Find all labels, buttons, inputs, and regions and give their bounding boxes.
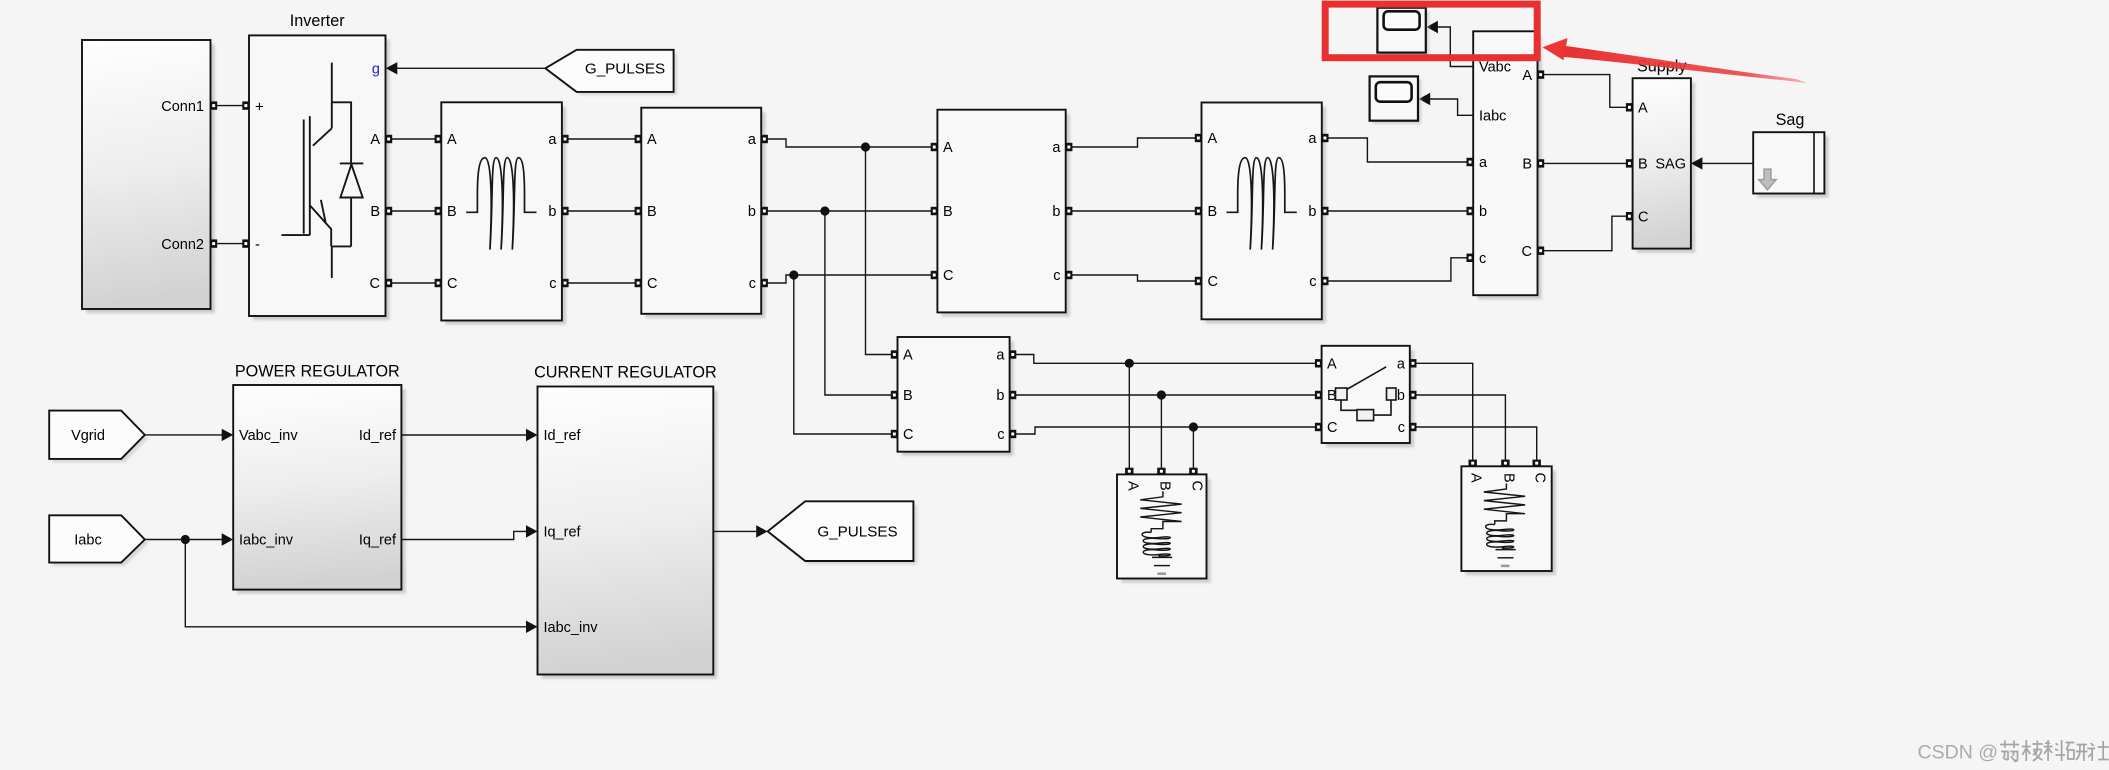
wire filter1 a to filter2 A (761, 139, 937, 152)
block Inverter (249, 35, 390, 320)
svg-text:Iabc: Iabc (74, 533, 101, 549)
wire tap a to breaker A (1010, 355, 1322, 368)
svg-text:c: c (1479, 251, 1486, 267)
svg-text:b: b (548, 204, 556, 220)
port markers load 2 top (1469, 460, 1541, 467)
port markers filter 1 (635, 135, 768, 287)
svg-text:B: B (370, 204, 380, 220)
wire tap b to breaker B (1010, 390, 1322, 399)
svg-text:Iq_ref: Iq_ref (359, 533, 397, 549)
svg-text:Conn1: Conn1 (161, 99, 204, 115)
subsystem POWER REGULATOR (233, 385, 405, 594)
svg-text:A: A (1468, 473, 1484, 483)
svg-text:B: B (1208, 204, 1218, 220)
svg-text:a: a (1397, 357, 1406, 373)
wire tap A down to measurement tap (866, 147, 898, 355)
svg-text:Id_ref: Id_ref (359, 428, 397, 444)
three-phase V-I measurement (1473, 31, 1542, 299)
svg-text:b: b (748, 204, 756, 220)
svg-text:b: b (996, 388, 1004, 404)
svg-text:c: c (1053, 268, 1060, 284)
svg-text:Iabc_inv: Iabc_inv (239, 533, 294, 549)
svg-text:A: A (1124, 481, 1140, 491)
port markers inverter + - inputs and A B C outputs (242, 101, 392, 287)
svg-text:C: C (943, 268, 953, 284)
block Sag (1753, 132, 1828, 198)
wire tap c to breaker C (1010, 422, 1322, 434)
svg-text:c: c (549, 276, 556, 292)
wire junction B down to load1 B (1160, 395, 1162, 474)
svg-text:A: A (903, 348, 913, 364)
svg-text:C: C (1188, 481, 1204, 491)
wire L1 b to filter1 B (562, 210, 641, 212)
wire L1 c to filter1 C (562, 282, 641, 284)
svg-text:g: g (372, 61, 380, 77)
wire regulator output to G_PULSES tag (713, 525, 767, 537)
svg-text:Iabc: Iabc (1479, 109, 1506, 125)
svg-text:B: B (647, 204, 657, 220)
scope 2 (1370, 76, 1422, 124)
wire measurement A to Supply A (1538, 75, 1633, 108)
subsystem CURRENT REGULATOR (538, 387, 718, 679)
svg-text:A: A (1208, 131, 1218, 147)
svg-text:Iq_ref: Iq_ref (544, 525, 582, 541)
svg-text:B: B (1327, 388, 1337, 404)
svg-text:a: a (548, 132, 557, 148)
wire measurement C to Supply C (1538, 216, 1633, 251)
svg-text:CSDN @: CSDN @ (1918, 742, 1998, 764)
subsystem PV source (Conn1/Conn2) (82, 40, 215, 313)
svg-text:A: A (647, 132, 657, 148)
subsystem filter 1 (641, 108, 765, 318)
input tag Vgrid (49, 411, 148, 463)
wire filter2 b to L2 B (1066, 210, 1202, 212)
wire Id_ref to Id_ref (401, 429, 537, 441)
port markers inductor L1 (435, 135, 569, 287)
wire junction C down to load1 C (1192, 427, 1194, 474)
svg-text:B: B (1638, 157, 1648, 173)
wire filter2 a to L2 A (1066, 138, 1202, 147)
red highlight rectangle around scope 1 (1325, 4, 1537, 58)
svg-text:A: A (447, 132, 457, 148)
wire filter1 b to filter2 B (761, 206, 937, 215)
svg-text:A: A (370, 132, 380, 148)
watermark hanzi glyphs (2000, 740, 2109, 761)
three-phase inductor L2 (1202, 103, 1327, 324)
input tag G_PULSES (to inverter gate) (545, 50, 677, 96)
svg-text:B: B (447, 204, 457, 220)
svg-text:C: C (647, 276, 657, 292)
svg-text:c: c (1309, 274, 1316, 290)
wire tap B down to measurement tap (825, 211, 898, 395)
svg-text:A: A (1638, 101, 1648, 117)
svg-text:POWER REGULATOR: POWER REGULATOR (235, 363, 400, 381)
wire inverter A to L1 A (386, 138, 442, 140)
svg-text:Id_ref: Id_ref (544, 428, 582, 444)
svg-text:C: C (1208, 274, 1218, 290)
svg-text:Vabc_inv: Vabc_inv (239, 428, 298, 444)
wire Conn2 to inverter - (211, 243, 250, 245)
wire G_PULSES to inverter g (386, 62, 546, 74)
inductor coil icon L2 (1227, 158, 1297, 250)
svg-text:A: A (1327, 357, 1337, 373)
svg-text:c: c (1398, 420, 1405, 436)
svg-text:Vabc: Vabc (1479, 60, 1511, 76)
svg-text:b: b (1308, 204, 1316, 220)
inductor coil icon L1 (466, 158, 536, 250)
three-phase breaker (1322, 346, 1414, 447)
wire junction A down to load1 A (1128, 363, 1130, 474)
wire L2 c to measurement c (1322, 258, 1473, 281)
svg-text:c: c (749, 276, 756, 292)
wire filter1 c to filter2 C (761, 270, 937, 283)
svg-text:C: C (1532, 473, 1548, 483)
wire measurement B to Supply B (1538, 162, 1633, 164)
wire Iabc junction to CURRENT REGULATOR Iabc_inv (185, 540, 537, 634)
input tag Iabc (49, 515, 148, 566)
wire inverter B to L1 B (386, 210, 442, 212)
red annotation arrow (1543, 38, 1568, 60)
svg-text:Conn2: Conn2 (161, 237, 204, 253)
load 1 series RL icon (1140, 491, 1181, 575)
load 2 series RL icon (1484, 483, 1525, 567)
wire Iq_ref to Iq_ref (401, 525, 537, 539)
svg-text:G_PULSES: G_PULSES (817, 524, 897, 541)
wire breaker b to load2 B (1410, 395, 1506, 466)
port markers filter 2 (931, 143, 1073, 279)
wire filter2 c to L2 C (1066, 275, 1202, 281)
wire Vabc to scope 1 (1426, 21, 1473, 67)
svg-text:A: A (943, 140, 953, 156)
svg-text:C: C (370, 276, 380, 292)
svg-text:B: B (903, 388, 913, 404)
svg-text:a: a (1308, 131, 1317, 147)
breaker switch icon (1336, 367, 1397, 421)
wire Vgrid to Vabc_inv (145, 429, 233, 441)
subsystem filter 2 (937, 110, 1070, 317)
svg-text:B: B (1500, 473, 1516, 483)
svg-text:a: a (1479, 155, 1488, 171)
svg-text:Inverter: Inverter (290, 12, 345, 30)
port markers measurement block (1467, 70, 1545, 262)
svg-text:Vgrid: Vgrid (71, 428, 105, 444)
Sag block icon (from-file) (1759, 132, 1814, 193)
port markers inductor L2 (1195, 134, 1329, 285)
inverter IGBT and diode icon (282, 63, 364, 278)
three-phase inductor L1 (441, 102, 566, 324)
wire breaker c to load2 C (1410, 427, 1537, 466)
port markers measurement tap (891, 350, 1017, 438)
port markers Conn1/Conn2 outputs (210, 101, 217, 247)
svg-text:a: a (996, 348, 1005, 364)
subsystem Supply (1633, 78, 1696, 253)
svg-text:C: C (447, 276, 457, 292)
svg-text:+: + (255, 99, 264, 116)
svg-text:b: b (1397, 388, 1405, 404)
wire L2 b to measurement b (1322, 210, 1473, 212)
svg-text:a: a (1052, 140, 1061, 156)
svg-text:C: C (1522, 244, 1532, 260)
svg-text:c: c (997, 427, 1004, 443)
port markers load 1 top (1125, 468, 1198, 475)
svg-text:Sag: Sag (1776, 111, 1805, 129)
wire L2 a to measurement a (1322, 138, 1473, 162)
three-phase load 1 (1117, 474, 1211, 582)
svg-text:B: B (1156, 481, 1172, 491)
port markers Supply inputs (1626, 103, 1633, 220)
svg-text:b: b (1052, 204, 1060, 220)
wire inverter C to L1 C (386, 282, 442, 284)
wire Conn1 to inverter + (211, 105, 250, 107)
subsystem measurement tap (898, 337, 1014, 456)
output tag G_PULSES (from current regulator) (768, 501, 917, 564)
svg-text:B: B (1522, 157, 1532, 173)
svg-text:-: - (255, 236, 260, 253)
wire tap C down to measurement tap (794, 275, 898, 434)
svg-text:G_PULSES: G_PULSES (585, 61, 665, 78)
svg-text:C: C (903, 427, 913, 443)
wire Iabc to scope 2 (1419, 93, 1474, 116)
svg-text:B: B (943, 204, 953, 220)
wire breaker a to load2 A (1410, 363, 1473, 466)
svg-text:A: A (1522, 68, 1532, 84)
svg-text:Iabc_inv: Iabc_inv (544, 620, 599, 636)
svg-text:CURRENT REGULATOR: CURRENT REGULATOR (534, 364, 717, 382)
three-phase load 2 (1461, 466, 1556, 575)
svg-text:a: a (748, 132, 757, 148)
svg-text:SAG: SAG (1655, 157, 1686, 173)
scope 1 (highlighted) (1377, 8, 1429, 56)
svg-text:C: C (1327, 420, 1337, 436)
port markers breaker (1315, 359, 1417, 431)
wire Iabc tag to Iabc_inv (145, 533, 233, 545)
wire L1 a to filter1 A (562, 138, 641, 140)
svg-text:C: C (1638, 209, 1648, 225)
wire Sag to Supply SAG (1691, 157, 1753, 169)
svg-text:b: b (1479, 204, 1487, 220)
